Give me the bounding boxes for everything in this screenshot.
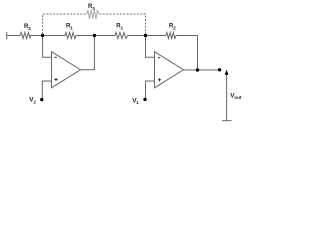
output terminal dot <box>218 68 221 71</box>
svg-text:2: 2 <box>173 26 176 31</box>
Vout arrow line <box>226 74 228 121</box>
node C junction dot <box>144 34 147 37</box>
node A junction dot <box>41 34 44 37</box>
Vout arrowhead <box>225 70 229 75</box>
op-amp U1 triangle <box>52 52 81 88</box>
op-amp U1 minus sign <box>54 56 56 58</box>
resistor R2 (right, feedback) <box>166 33 176 39</box>
svg-text:2: 2 <box>28 26 31 31</box>
svg-text:3: 3 <box>92 6 95 11</box>
op-amp U2 minus sign <box>158 57 160 59</box>
wire U2 output to output terminal <box>184 69 220 71</box>
op-amp U2 triangle <box>155 52 184 88</box>
resistor R2 (left) <box>20 33 30 39</box>
wire node C to R2b <box>146 35 167 37</box>
svg-text:1: 1 <box>136 100 139 105</box>
wire node C down to U2 inverting input <box>146 36 155 58</box>
op-amp U1 plus sign <box>54 78 57 81</box>
dashed wire R3 to node C <box>100 14 146 34</box>
wire V1 up to U2 non-inverting input <box>146 81 155 99</box>
resistor R1 (first) <box>65 33 76 39</box>
wire R2b to feedback corner <box>176 36 198 71</box>
dashed wire node A up <box>43 14 87 34</box>
wire R2a to node A <box>30 35 42 37</box>
feedback junction dot <box>196 68 199 71</box>
svg-text:1: 1 <box>121 26 124 31</box>
V2 terminal dot <box>40 98 43 101</box>
V1 terminal dot <box>143 98 146 101</box>
wire R1a to node B <box>76 35 94 37</box>
node B junction dot <box>93 34 96 37</box>
wire terminal to R2a <box>7 35 21 37</box>
dashed link to optional R3 <box>43 14 146 34</box>
Vout bottom tick <box>222 120 232 122</box>
wire node B to R1b <box>94 35 115 37</box>
op-amp U2 plus sign <box>158 78 161 81</box>
resistor R1 (second) <box>115 33 128 39</box>
svg-text:1: 1 <box>70 26 73 31</box>
wire node A to R1a <box>43 35 65 37</box>
resistor R3 (optional, light) <box>87 10 99 19</box>
wire V2 up to U1 non-inverting input <box>42 81 51 100</box>
wire node A down to U1 inverting input <box>43 36 52 58</box>
wire U1 output up to node B <box>81 36 95 70</box>
input terminal (left reference terminal) <box>6 32 8 40</box>
svg-text:2: 2 <box>33 99 36 104</box>
wire R1b to node C <box>128 35 146 37</box>
svg-text:out: out <box>234 95 242 100</box>
